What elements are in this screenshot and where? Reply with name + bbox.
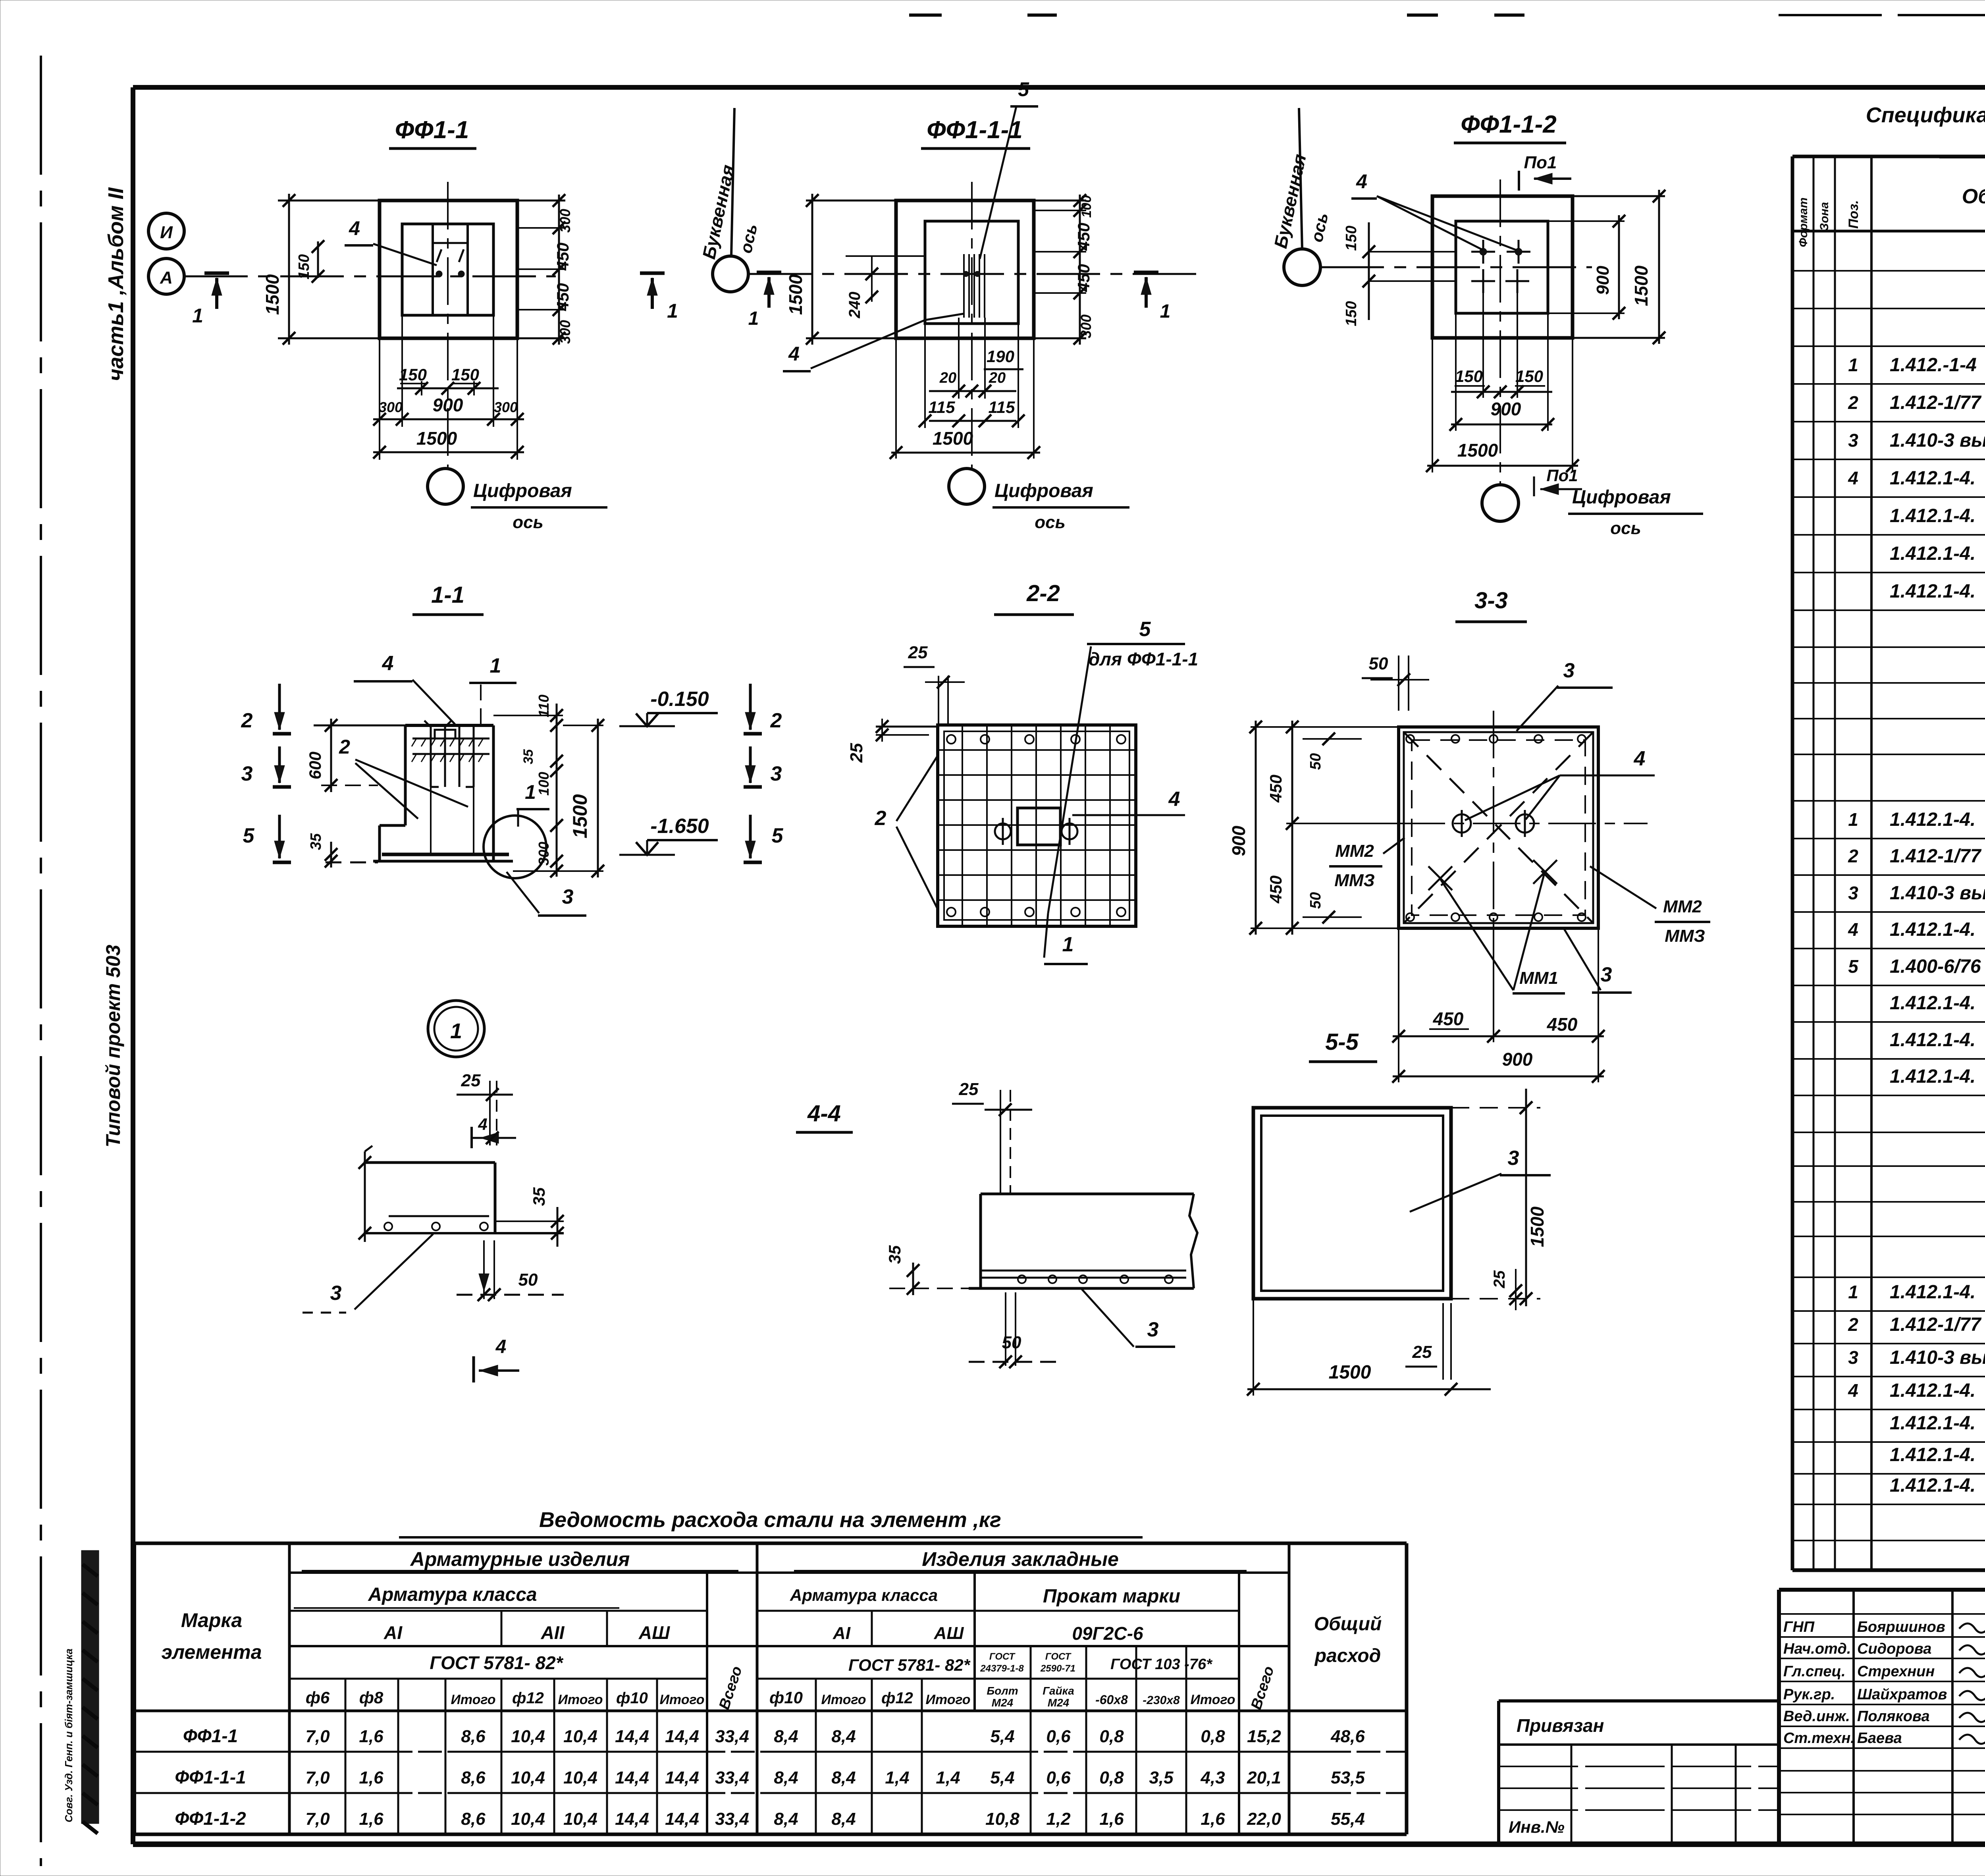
- plan FF1-1-2 right dim 1500: [1573, 195, 1665, 197]
- section 3-3 left dim 900: [1251, 726, 1399, 728]
- svg-text:150: 150: [1343, 301, 1360, 326]
- svg-text:АII: АII: [541, 1622, 565, 1643]
- svg-text:300: 300: [379, 399, 403, 415]
- section 1-1 right dim chain small: [556, 704, 558, 877]
- drawing frame: [133, 85, 1985, 90]
- svg-text:1,2: 1,2: [1046, 1809, 1071, 1829]
- svg-text:Марка: Марка: [181, 1609, 242, 1631]
- detail 1 rebar dots: [384, 1222, 392, 1230]
- svg-text:0,8: 0,8: [1099, 1768, 1124, 1787]
- svg-text:25: 25: [959, 1080, 979, 1099]
- svg-text:АI: АI: [384, 1622, 403, 1643]
- svg-text:Ведомость расхода стали на: Ведомость расхода стали на элемент ,кг: [539, 1508, 1001, 1532]
- plan FF1-1 anchor bolts: [436, 271, 442, 277]
- svg-text:48,6: 48,6: [1330, 1727, 1365, 1746]
- svg-text:4: 4: [349, 217, 360, 239]
- svg-text:Поз.: Поз.: [1846, 200, 1861, 229]
- svg-text:900: 900: [1593, 266, 1613, 295]
- svg-text:33,4: 33,4: [715, 1809, 749, 1829]
- svg-text:5,4: 5,4: [990, 1727, 1014, 1746]
- svg-text:22,0: 22,0: [1247, 1809, 1281, 1829]
- section 1-1 rebar verticals and mesh: [430, 727, 432, 787]
- svg-text:1,6: 1,6: [359, 1768, 384, 1787]
- section 3-3 rebar dots: [1406, 735, 1414, 743]
- svg-text:300: 300: [557, 320, 573, 344]
- svg-text:1,6: 1,6: [1201, 1809, 1225, 1829]
- svg-text:4: 4: [478, 1115, 487, 1134]
- svg-text:2590-71: 2590-71: [1040, 1663, 1075, 1674]
- left margin stamp strip: [81, 1550, 99, 1824]
- svg-text:1.412-1/77 вып.3: 1.412-1/77 вып.3: [1890, 392, 1985, 413]
- svg-text:2: 2: [339, 736, 350, 758]
- svg-text:50: 50: [1369, 654, 1388, 673]
- svg-text:1.412.1-4.: 1.412.1-4.: [1890, 1413, 1975, 1434]
- svg-text:И: И: [160, 223, 173, 242]
- plan FF1-1 inner square 900: [402, 224, 493, 315]
- svg-text:Зона: Зона: [1818, 202, 1831, 231]
- section 5-5 right dim 1500: [1451, 1107, 1540, 1109]
- staff table verticals: [1852, 1590, 1855, 1844]
- svg-text:5: 5: [1848, 956, 1859, 977]
- svg-text:150: 150: [451, 365, 479, 384]
- section 4-4 slab outline: [981, 1193, 1194, 1195]
- svg-text:Цифровая: Цифровая: [1572, 487, 1671, 508]
- svg-text:1: 1: [525, 781, 536, 803]
- svg-text:450: 450: [1074, 264, 1093, 292]
- svg-text:Баева: Баева: [1857, 1730, 1902, 1747]
- svg-text:1,6: 1,6: [359, 1727, 384, 1746]
- svg-text:450: 450: [1266, 875, 1285, 904]
- svg-text:ММЗ: ММЗ: [1334, 871, 1375, 890]
- svg-text:09Г2С-6: 09Г2С-6: [1072, 1623, 1143, 1644]
- svg-text:0,6: 0,6: [1046, 1768, 1071, 1787]
- steel table frame: [135, 1542, 1407, 1545]
- plan FF1-1-1 anchor bolt bundle: [963, 254, 965, 318]
- section 3-3 dashed diagonals: [1404, 732, 1593, 923]
- svg-text:2: 2: [241, 709, 253, 732]
- svg-text:1.412.1-4.: 1.412.1-4.: [1890, 1475, 1975, 1496]
- svg-text:ф8: ф8: [359, 1688, 384, 1707]
- svg-text:3: 3: [1508, 1147, 1519, 1170]
- svg-text:3: 3: [1147, 1318, 1159, 1341]
- svg-text:1500: 1500: [785, 274, 806, 315]
- svg-text:15,2: 15,2: [1247, 1727, 1281, 1746]
- svg-text:1500: 1500: [416, 428, 457, 449]
- svg-text:Итого: Итого: [659, 1692, 704, 1707]
- svg-text:100: 100: [1079, 195, 1094, 218]
- svg-text:450: 450: [1547, 1014, 1578, 1035]
- svg-text:Итого: Итого: [821, 1692, 866, 1707]
- axis circle letter FF1-1-1: [713, 256, 748, 292]
- axis circle I: [148, 213, 184, 249]
- svg-text:1500: 1500: [1457, 440, 1498, 461]
- svg-text:50: 50: [1307, 753, 1324, 770]
- svg-text:450: 450: [1266, 775, 1285, 803]
- svg-text:10,4: 10,4: [563, 1768, 597, 1787]
- svg-text:450: 450: [553, 243, 572, 271]
- svg-text:4-4: 4-4: [807, 1101, 841, 1126]
- svg-text:Ст.техн.: Ст.техн.: [1783, 1730, 1855, 1747]
- section 5-5 square: [1253, 1108, 1451, 1299]
- plan FF1-1-1 outer square: [896, 201, 1034, 338]
- svg-text:10,4: 10,4: [511, 1809, 545, 1829]
- svg-text:900: 900: [433, 395, 463, 415]
- svg-text:4: 4: [1848, 919, 1858, 940]
- svg-text:5: 5: [1018, 78, 1029, 100]
- svg-text:10,4: 10,4: [511, 1768, 545, 1787]
- svg-text:50: 50: [518, 1270, 538, 1290]
- svg-text:Цифровая: Цифровая: [473, 480, 572, 501]
- svg-text:25: 25: [461, 1071, 481, 1090]
- svg-text:150: 150: [296, 254, 312, 279]
- svg-text:25: 25: [1491, 1270, 1508, 1288]
- section mark 1 near circle: [757, 271, 781, 274]
- svg-text:50: 50: [1307, 892, 1324, 909]
- svg-text:190: 190: [987, 347, 1014, 366]
- plan FF1-1 bottom axis circle: [428, 469, 463, 504]
- svg-text:ГОСТ 5781- 82*: ГОСТ 5781- 82*: [848, 1656, 971, 1674]
- svg-text:ММ2: ММ2: [1663, 897, 1702, 916]
- svg-text:АI: АI: [833, 1623, 851, 1643]
- spec table header: [1792, 230, 1985, 233]
- svg-text:900: 900: [1491, 399, 1521, 419]
- svg-text:-60х8: -60х8: [1095, 1693, 1128, 1707]
- svg-text:1: 1: [490, 654, 501, 677]
- svg-text:1.412.1-4.: 1.412.1-4.: [1890, 505, 1975, 526]
- svg-text:Шайхратов: Шайхратов: [1857, 1686, 1947, 1703]
- svg-text:ММ2: ММ2: [1335, 841, 1374, 861]
- svg-text:ф10: ф10: [769, 1688, 803, 1707]
- svg-text:1.412.1-4.: 1.412.1-4.: [1890, 468, 1975, 489]
- svg-text:5: 5: [772, 824, 784, 847]
- section 3-3 centerlines: [1322, 823, 1648, 824]
- section 1-1 left dims 600 35: [330, 719, 332, 792]
- plan FF1-1 left dim 150: [317, 241, 319, 278]
- svg-text:-230х8: -230х8: [1143, 1694, 1180, 1707]
- svg-text:1500: 1500: [933, 428, 973, 449]
- plan FF1-1-2 outer square: [1432, 196, 1573, 338]
- detail 1 left dim line: [364, 1151, 366, 1242]
- axis circle letter FF1-1-2: [1284, 249, 1320, 285]
- svg-text:4: 4: [1168, 788, 1180, 811]
- svg-text:ось: ось: [1610, 519, 1641, 538]
- svg-text:20: 20: [939, 370, 956, 386]
- svg-text:1500: 1500: [262, 274, 283, 315]
- svg-text:300: 300: [1078, 314, 1094, 338]
- axis circle A: [148, 258, 184, 294]
- svg-text:ФФ1-1-2: ФФ1-1-2: [1461, 111, 1557, 138]
- svg-text:1.412.1-4.: 1.412.1-4.: [1890, 1066, 1975, 1087]
- svg-text:3: 3: [562, 885, 574, 908]
- letter axis leader FF1-1-2: [1299, 108, 1302, 249]
- svg-text:450: 450: [553, 283, 572, 311]
- svg-text:1: 1: [450, 1019, 462, 1043]
- detail 1 circle mark: [428, 1001, 484, 1057]
- svg-text:5: 5: [1139, 618, 1151, 641]
- svg-text:3: 3: [771, 762, 782, 785]
- svg-text:1.412.1-4.: 1.412.1-4.: [1890, 993, 1975, 1014]
- section 2-2 mesh grid: [962, 725, 963, 926]
- svg-text:1: 1: [1848, 355, 1858, 375]
- plan FF1-1-2 bottom axis circle: [1482, 485, 1519, 521]
- svg-text:25: 25: [1412, 1342, 1432, 1362]
- svg-text:5-5: 5-5: [1325, 1029, 1359, 1055]
- section 1-1 hooks at top: [424, 721, 431, 727]
- svg-text:53,5: 53,5: [1331, 1768, 1365, 1787]
- svg-text:ГОСТ: ГОСТ: [1045, 1651, 1072, 1662]
- svg-text:900: 900: [1228, 825, 1249, 856]
- section 3-3 bottom dims 450 450 900: [1398, 928, 1399, 1082]
- svg-text:1.412-1/77 вып.3: 1.412-1/77 вып.3: [1890, 846, 1985, 867]
- svg-text:4: 4: [1634, 747, 1646, 770]
- svg-text:ф6: ф6: [306, 1688, 330, 1707]
- svg-text:3-3: 3-3: [1474, 588, 1508, 613]
- svg-text:8,6: 8,6: [461, 1809, 486, 1829]
- svg-text:7,0: 7,0: [305, 1768, 330, 1787]
- svg-text:1.412.1-4.: 1.412.1-4.: [1890, 543, 1975, 564]
- svg-text:4: 4: [495, 1336, 507, 1357]
- svg-text:ось: ось: [513, 513, 543, 532]
- svg-text:1.400-6/76 вып.1: 1.400-6/76 вып.1: [1890, 956, 1985, 977]
- plan FF1-1-1 bottom axis circle: [949, 469, 985, 504]
- svg-text:8,4: 8,4: [774, 1809, 798, 1829]
- section 3-3 anchor circles: [1453, 814, 1471, 833]
- plan FF1-1 left dim 1500: [278, 200, 380, 202]
- svg-text:110: 110: [536, 694, 552, 717]
- svg-text:ФФ1-1: ФФ1-1: [183, 1726, 238, 1746]
- plan FF1-1-1 socket rect: [925, 221, 1018, 324]
- svg-text:10,4: 10,4: [511, 1727, 545, 1746]
- svg-text:1.410-3 вып.1: 1.410-3 вып.1: [1890, 883, 1985, 904]
- svg-text:Изделия закладные: Изделия закладные: [922, 1548, 1119, 1570]
- svg-text:М24: М24: [992, 1697, 1014, 1709]
- svg-text:1: 1: [667, 300, 678, 322]
- spec table verticals: [1813, 156, 1815, 1570]
- svg-text:5,4: 5,4: [990, 1768, 1014, 1787]
- section 1-1 ground line: [314, 725, 405, 727]
- svg-text:3,5: 3,5: [1149, 1768, 1174, 1787]
- svg-text:ФФ1-1: ФФ1-1: [395, 116, 469, 144]
- svg-text:14,4: 14,4: [615, 1768, 649, 1787]
- svg-text:2-2: 2-2: [1026, 580, 1060, 606]
- plan FF1-1-1 right dim chain: [1034, 200, 1086, 202]
- svg-text:Спецификация на монолитные: Спецификация на монолитные железобетонны…: [1866, 103, 1985, 127]
- svg-text:2: 2: [1848, 392, 1858, 413]
- svg-text:0,8: 0,8: [1099, 1727, 1124, 1746]
- svg-text:150: 150: [1343, 226, 1360, 251]
- privyazan box: [1499, 1699, 1779, 1702]
- svg-text:АШ: АШ: [638, 1622, 670, 1643]
- svg-text:1.412-1/77 вып.3: 1.412-1/77 вып.3: [1890, 1314, 1985, 1335]
- staff table rows: [1779, 1613, 1985, 1615]
- svg-text:4,3: 4,3: [1200, 1768, 1225, 1787]
- svg-text:14,4: 14,4: [665, 1768, 699, 1787]
- svg-text:20: 20: [989, 370, 1006, 386]
- steel table horizontals: [289, 1571, 1289, 1574]
- section 3-3 bolt crosses: [1428, 866, 1452, 890]
- svg-text:1: 1: [192, 305, 203, 327]
- svg-text:ГОСТ 5781- 82*: ГОСТ 5781- 82*: [430, 1652, 563, 1673]
- svg-text:10,8: 10,8: [985, 1809, 1019, 1829]
- svg-text:3: 3: [1563, 659, 1575, 682]
- plan FF1-1 bottom dim 300/900/300: [379, 338, 380, 460]
- svg-text:Арматурные изделия: Арматурные изделия: [410, 1548, 630, 1570]
- svg-text:450: 450: [1074, 223, 1093, 251]
- svg-text:3: 3: [1601, 963, 1612, 986]
- svg-text:450: 450: [1433, 1008, 1464, 1029]
- svg-text:2: 2: [1848, 1314, 1858, 1335]
- detail 1 slab outline: [364, 1161, 495, 1164]
- svg-text:4: 4: [1848, 468, 1858, 488]
- svg-text:1,4: 1,4: [936, 1768, 960, 1787]
- svg-text:1,6: 1,6: [359, 1809, 384, 1829]
- svg-text:По1: По1: [1524, 153, 1557, 172]
- svg-text:1: 1: [748, 308, 759, 329]
- svg-text:1.410-3 вып.1: 1.410-3 вып.1: [1890, 1347, 1985, 1368]
- svg-text:150: 150: [1515, 367, 1543, 386]
- svg-text:14,4: 14,4: [615, 1809, 649, 1829]
- svg-text:1500: 1500: [1631, 265, 1652, 306]
- svg-text:50: 50: [1002, 1333, 1021, 1352]
- svg-text:Инв.№: Инв.№: [1509, 1818, 1565, 1836]
- svg-text:Бояршинов: Бояршинов: [1857, 1619, 1945, 1635]
- svg-text:1.412.1-4.: 1.412.1-4.: [1890, 919, 1975, 940]
- svg-text:8,6: 8,6: [461, 1768, 486, 1787]
- plan FF1-1-2 right dim 900: [1548, 220, 1625, 222]
- svg-text:300: 300: [557, 209, 573, 233]
- svg-text:ф10: ф10: [616, 1689, 648, 1707]
- svg-text:Обозначение: Обозначение: [1962, 185, 1985, 208]
- svg-text:3: 3: [1848, 430, 1858, 451]
- svg-text:4: 4: [1356, 170, 1367, 193]
- svg-text:Арматура класса: Арматура класса: [790, 1586, 938, 1604]
- svg-text:8,4: 8,4: [831, 1727, 856, 1746]
- detail circle on section 1-1: [484, 816, 546, 878]
- svg-text:240: 240: [846, 292, 863, 319]
- svg-text:1.410-3 вып.1: 1.410-3 вып.1: [1890, 430, 1985, 451]
- title block outer: [1779, 1588, 1985, 1592]
- svg-text:часть1 ,Альбом II: часть1 ,Альбом II: [104, 187, 128, 381]
- plan FF1-1 vertical centerline: [447, 182, 449, 469]
- section 2-2 embedded plate with bolts: [1018, 808, 1060, 845]
- section 3-3 outer square: [1399, 727, 1598, 928]
- svg-text:1: 1: [1062, 933, 1074, 956]
- svg-text:20,1: 20,1: [1247, 1768, 1281, 1787]
- svg-text:35: 35: [308, 833, 324, 850]
- axis line A horizontal: [184, 276, 556, 278]
- axis line horizontal FF1-1-2: [1320, 266, 1592, 268]
- leader from 5 down to plate: [1048, 646, 1091, 913]
- letter axis leader line: [731, 108, 734, 256]
- svg-text:1.412.1-4.: 1.412.1-4.: [1890, 581, 1975, 602]
- svg-text:ММЗ: ММЗ: [1665, 926, 1705, 946]
- svg-text:115: 115: [929, 398, 956, 416]
- svg-text:150: 150: [1455, 367, 1483, 386]
- svg-text:3: 3: [1848, 883, 1858, 903]
- svg-text:2: 2: [1848, 846, 1858, 866]
- svg-text:Формат: Формат: [1797, 197, 1810, 247]
- svg-text:1500: 1500: [569, 794, 591, 838]
- section 2-2 rebar dots top and bottom: [947, 735, 956, 744]
- section mark 1 left of plan FF1-1: [204, 272, 229, 275]
- svg-text:35: 35: [521, 749, 536, 764]
- plan FF1-1-1 vertical centerline: [971, 182, 973, 469]
- svg-text:Типовой проект 503: Типовой проект 503: [102, 945, 124, 1147]
- svg-text:1.412.1-4.: 1.412.1-4.: [1890, 809, 1975, 830]
- svg-text:1500: 1500: [1329, 1362, 1371, 1383]
- svg-text:300: 300: [494, 399, 518, 415]
- plan FF1-1-1 left dim 1500: [806, 200, 896, 202]
- svg-text:Прокат марки: Прокат марки: [1043, 1586, 1180, 1607]
- svg-text:Итого: Итого: [925, 1692, 970, 1707]
- svg-text:элемента: элемента: [161, 1641, 262, 1663]
- svg-text:М24: М24: [1048, 1697, 1070, 1709]
- svg-text:24379-1-8: 24379-1-8: [980, 1663, 1024, 1674]
- svg-text:300: 300: [536, 842, 552, 866]
- svg-text:3: 3: [330, 1282, 342, 1305]
- svg-text:По1: По1: [1546, 466, 1578, 485]
- svg-text:-1.650: -1.650: [650, 815, 709, 838]
- svg-text:Гайка: Гайка: [1043, 1685, 1074, 1697]
- svg-text:Итого: Итого: [558, 1692, 603, 1707]
- section 1-1 foundation outline: [405, 724, 493, 727]
- detail 1 section arrow 4: [472, 1356, 475, 1382]
- plan FF1-1-2 anchor bolt crosses: [1471, 251, 1495, 253]
- svg-text:1.412.1-4.: 1.412.1-4.: [1890, 1030, 1975, 1051]
- svg-text:100: 100: [536, 772, 552, 796]
- svg-text:1-1: 1-1: [431, 582, 464, 608]
- svg-text:ось: ось: [1035, 513, 1065, 532]
- svg-text:0,8: 0,8: [1201, 1727, 1225, 1746]
- svg-text:ГОСТ: ГОСТ: [989, 1651, 1016, 1662]
- svg-text:4: 4: [382, 652, 394, 675]
- plan FF1-1-2 left dims 150/150: [1368, 222, 1370, 320]
- section 2-2 mesh square: [938, 725, 1136, 926]
- svg-text:-0.150: -0.150: [650, 688, 709, 711]
- svg-text:35: 35: [530, 1187, 548, 1206]
- svg-text:8,4: 8,4: [831, 1768, 856, 1787]
- svg-text:ГОСТ 103 -76*: ГОСТ 103 -76*: [1110, 1656, 1213, 1673]
- svg-text:14,4: 14,4: [665, 1727, 699, 1746]
- svg-text:Сидорова: Сидорова: [1857, 1641, 1931, 1657]
- svg-text:ф12: ф12: [512, 1689, 544, 1707]
- section mark 1 right FF1-1-1: [1134, 271, 1158, 274]
- svg-text:ГНП: ГНП: [1783, 1619, 1815, 1635]
- page border torn-edge dashes: [909, 13, 942, 17]
- svg-text:600: 600: [306, 752, 324, 779]
- plan FF1-1 column glass lines: [432, 224, 434, 315]
- svg-text:8,4: 8,4: [774, 1727, 798, 1746]
- svg-text:1: 1: [1160, 301, 1171, 322]
- section 3-3 left dim 450 450: [1291, 721, 1293, 935]
- svg-text:10,4: 10,4: [563, 1809, 597, 1829]
- axis line horizontal FF1-1-1: [748, 273, 1203, 275]
- svg-text:4: 4: [1848, 1380, 1858, 1401]
- svg-text:Итого: Итого: [451, 1692, 495, 1707]
- spec table frame: [1792, 155, 1985, 158]
- svg-text:2: 2: [770, 709, 782, 732]
- section 1-1 right dim 1500: [597, 719, 599, 877]
- svg-text:8,4: 8,4: [831, 1809, 856, 1829]
- svg-text:Гл.спец.: Гл.спец.: [1783, 1663, 1846, 1680]
- svg-text:25: 25: [847, 743, 866, 763]
- svg-text:расход: расход: [1314, 1645, 1381, 1666]
- ground dashes below base: [326, 862, 378, 864]
- svg-text:1: 1: [1848, 809, 1858, 830]
- svg-text:150: 150: [399, 365, 427, 384]
- staff signatures squiggles: [1959, 1623, 1985, 1633]
- plan FF1-1-2 vertical centerline: [1499, 179, 1501, 486]
